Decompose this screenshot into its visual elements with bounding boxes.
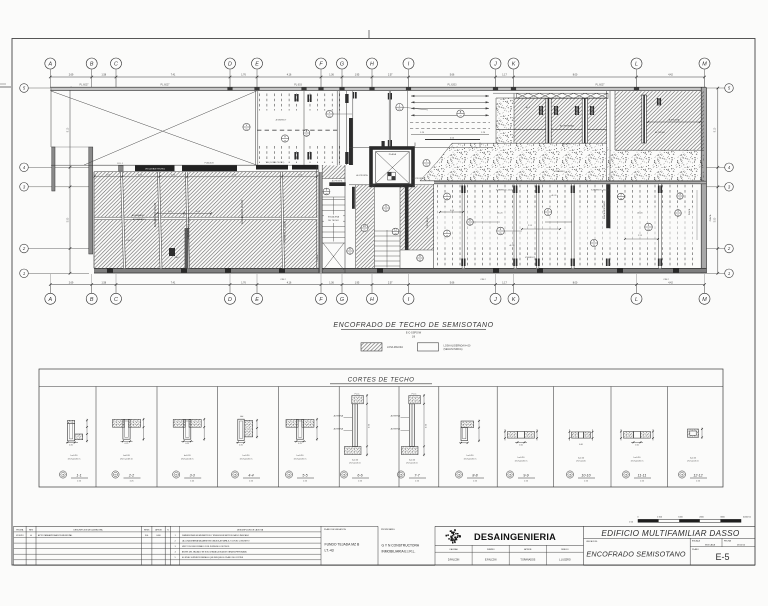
svg-text:G Y N CONSTRUCTORA: G Y N CONSTRUCTORA	[382, 544, 420, 548]
svg-text:h=0.20: h=0.20	[297, 455, 305, 457]
svg-text:COL.1: COL.1	[117, 163, 124, 165]
svg-text:V-SEMISOT (.25x.60): V-SEMISOT (.25x.60)	[496, 190, 515, 192]
svg-text:h=0.20: h=0.20	[123, 455, 131, 457]
svg-text:AL.TECHO: AL.TECHO	[655, 131, 665, 134]
svg-text:LOSA ALIGERADA H=20: LOSA ALIGERADA H=20	[444, 344, 471, 347]
svg-text:L.LUCERO: L.LUCERO	[559, 560, 571, 562]
svg-text:1: 1	[728, 271, 730, 276]
svg-text:5-5: 5-5	[302, 473, 307, 477]
svg-text:VIG (DOBLE TECHO): VIG (DOBLE TECHO)	[145, 169, 165, 171]
svg-text:J: J	[493, 62, 497, 68]
svg-text:FECHA: FECHA	[724, 539, 731, 542]
svg-text:G: G	[340, 297, 344, 303]
svg-text:EL NIVEL SUPERIOR SERA EL QUE: EL NIVEL SUPERIOR SERA EL QUE INDIQUE EL…	[182, 556, 244, 559]
svg-text:E: E	[255, 297, 259, 303]
svg-text:h=0.25: h=0.25	[690, 457, 697, 459]
svg-text:11-11: 11-11	[638, 473, 647, 477]
svg-text:PLANO: PLANO	[692, 548, 699, 551]
svg-text:CALIDAD: CALIDAD	[449, 548, 458, 551]
svg-text:PL.6203: PL.6203	[448, 84, 458, 87]
svg-text:3-3: 3-3	[190, 473, 195, 477]
svg-text:DESCRIPCION DE LA NOTA: DESCRIPCION DE LA NOTA	[237, 528, 264, 531]
svg-text:APTO PARA APROBACION MUNICIPAL: APTO PARA APROBACION MUNICIPAL	[38, 534, 72, 537]
svg-text:h=0.20: h=0.20	[71, 455, 79, 457]
svg-text:4-4: 4-4	[248, 473, 253, 477]
svg-text:A.PRONTA: A.PRONTA	[669, 119, 680, 122]
svg-text:0.25: 0.25	[185, 443, 189, 445]
svg-text:06/10/14: 06/10/14	[737, 545, 746, 547]
svg-text:5.90: 5.90	[715, 217, 717, 222]
svg-text:PL./C: PL./C	[355, 393, 360, 395]
svg-text:A SEMISOT: A SEMISOT	[276, 119, 288, 122]
svg-text:PL.6027: PL.6027	[80, 84, 90, 87]
svg-text:AL.PRONTA: AL.PRONTA	[356, 174, 368, 177]
svg-text:RELLENO: RELLENO	[555, 171, 565, 173]
svg-text:(T) h=0.05 m: (T) h=0.05 m	[68, 458, 81, 460]
svg-text:FECHA: FECHA	[16, 528, 23, 531]
svg-text:T.GRANADOS: T.GRANADOS	[520, 559, 535, 562]
svg-text:1:100: 1:100	[657, 516, 663, 518]
svg-text:AL.20: AL.20	[497, 212, 503, 215]
svg-text:E: E	[255, 62, 259, 68]
svg-text:5.66: 5.66	[450, 75, 455, 77]
svg-text:PLANO DE UBICACION: PLANO DE UBICACION	[324, 528, 346, 531]
svg-text:V: V	[329, 110, 331, 114]
svg-text:V-SEMISOT (.25x.60): V-SEMISOT (.25x.60)	[591, 190, 610, 192]
svg-text:PL.6027: PL.6027	[161, 84, 171, 87]
svg-text:DESCANSO: DESCANSO	[426, 216, 429, 228]
svg-text:DESCRIPCION DE LA MEJORA: DESCRIPCION DE LA MEJORA	[73, 528, 103, 531]
svg-text:PLACA/DESCANSO: PLACA/DESCANSO	[603, 200, 606, 219]
svg-text:0.25: 0.25	[69, 444, 73, 446]
svg-text:ALIGERADO: ALIGERADO	[133, 218, 146, 221]
svg-text:V: V	[246, 123, 248, 127]
svg-text:5: 5	[175, 557, 176, 559]
svg-text:1.36: 1.36	[329, 282, 334, 284]
svg-text:D: D	[228, 62, 232, 68]
svg-text:E.FALCON: E.FALCON	[485, 559, 497, 562]
svg-text:C: C	[114, 62, 118, 68]
svg-text:LT.-43: LT.-43	[325, 549, 334, 553]
svg-text:C: C	[114, 297, 118, 303]
svg-text:Asf.: Asf.	[240, 415, 244, 418]
svg-text:2.69: 2.69	[69, 75, 74, 77]
svg-text:E-C-SSPG/W: E-C-SSPG/W	[406, 332, 422, 335]
svg-text:ALTERNA: ALTERNA	[334, 428, 344, 431]
svg-text:A: A	[284, 135, 286, 139]
svg-text:10-10: 10-10	[581, 473, 590, 477]
svg-text:1.00: 1.00	[635, 444, 639, 446]
svg-text:h=0.20: h=0.20	[467, 455, 475, 457]
svg-text:1.95: 1.95	[355, 75, 360, 77]
svg-text:DESAINGENIERIA: DESAINGENIERIA	[474, 532, 556, 542]
svg-text:0.25: 0.25	[239, 444, 243, 446]
svg-text:1.76: 1.76	[241, 282, 246, 284]
svg-text:PLACA: PLACA	[709, 214, 712, 221]
svg-text:6-6: 6-6	[357, 473, 362, 477]
svg-text:(T) h=0.05: (T) h=0.05	[576, 461, 586, 463]
svg-text:ALT.PRONTAS: ALT.PRONTAS	[560, 125, 575, 128]
svg-text:0.25: 0.25	[298, 443, 302, 445]
svg-text:5.90: 5.90	[68, 217, 70, 222]
svg-text:K: K	[512, 62, 516, 68]
svg-text:L: L	[635, 297, 638, 303]
svg-text:REV: REV	[29, 529, 34, 531]
svg-text:(T) h=0.05 m: (T) h=0.05 m	[687, 461, 699, 463]
svg-text:12-12: 12-12	[693, 473, 702, 477]
svg-text:APROB: APROB	[524, 548, 532, 551]
svg-text:FUNDO TEJADA MZ B: FUNDO TEJADA MZ B	[325, 543, 361, 547]
svg-text:H: H	[370, 62, 374, 68]
svg-text:(T) h=0.05 m: (T) h=0.05 m	[294, 458, 307, 460]
svg-text:VER TODO ENCOFRADO CON JUNTA D: VER TODO ENCOFRADO CON JUNTA DE LOS PISO…	[182, 545, 230, 548]
svg-text:9-9: 9-9	[523, 473, 528, 477]
svg-text:J: J	[493, 297, 497, 303]
svg-text:VIGA CHATA V-CH: VIGA CHATA V-CH	[187, 217, 191, 239]
svg-text:2-2: 2-2	[128, 473, 134, 477]
svg-text:INMOBILIARIA E.I.R.L.: INMOBILIARIA E.I.R.L.	[382, 550, 416, 554]
svg-text:1.95: 1.95	[355, 282, 360, 284]
svg-text:1.00: 1.00	[519, 444, 523, 446]
svg-text:h=0.20: h=0.20	[634, 457, 642, 459]
svg-text:M: M	[702, 297, 707, 303]
svg-text:1.17: 1.17	[502, 75, 507, 77]
svg-text:(T) h=0.05 m: (T) h=0.05 m	[181, 458, 194, 460]
svg-text:DE TECHO: DE TECHO	[328, 220, 339, 222]
svg-text:PLACA: PLACA	[316, 254, 319, 261]
svg-text:D.FALCON: D.FALCON	[448, 559, 460, 562]
svg-text:(SEGUN INDICA): (SEGUN INDICA)	[444, 348, 463, 351]
svg-text:2.37: 2.37	[388, 282, 393, 284]
svg-text:h=0.20: h=0.20	[409, 460, 416, 462]
svg-text:AL.P: AL.P	[526, 106, 531, 109]
svg-text:B: B	[90, 297, 94, 303]
svg-text:CA.2: CA.2	[175, 256, 181, 259]
svg-text:PLACA: PLACA	[389, 153, 397, 156]
svg-text:8.00: 8.00	[573, 282, 578, 284]
svg-text:1.76: 1.76	[241, 75, 246, 77]
svg-text:PLACA B: PLACA B	[204, 162, 214, 165]
svg-text:M: M	[702, 62, 707, 68]
svg-text:LA LOSA DEBERA VACIARSE EN UNA: LA LOSA DEBERA VACIARSE EN UNA SOLA ETAP…	[182, 539, 250, 542]
svg-text:1.58: 1.58	[102, 75, 107, 77]
svg-text:PL.603: PL.603	[294, 84, 302, 87]
svg-text:ENCOFRADO SEMISOTANO: ENCOFRADO SEMISOTANO	[586, 550, 686, 559]
svg-text:h=0.20: h=0.20	[184, 455, 192, 457]
svg-text:DGL: DGL	[145, 535, 149, 537]
svg-text:2.37: 2.37	[388, 75, 393, 77]
svg-text:G: G	[340, 62, 344, 68]
svg-text:1: 1	[175, 535, 176, 537]
svg-text:AL.20: AL.20	[637, 212, 643, 215]
svg-text:2: 2	[175, 540, 176, 542]
svg-text:7.41: 7.41	[171, 282, 176, 284]
svg-text:h=0.20: h=0.20	[352, 460, 359, 462]
svg-text:1.58: 1.58	[102, 282, 107, 284]
svg-text:8.10: 8.10	[715, 127, 717, 132]
svg-text:APROB: APROB	[155, 528, 162, 531]
svg-text:ALTERNA: ALTERNA	[391, 428, 401, 431]
svg-text:H: H	[370, 297, 374, 303]
svg-text:8-8: 8-8	[472, 473, 477, 477]
svg-text:ALIGERADO H=0.20: ALIGERADO H=0.20	[240, 199, 244, 224]
svg-text:h=0.20: h=0.20	[243, 455, 251, 457]
svg-text:ALTERNA: ALTERNA	[391, 415, 401, 418]
svg-text:PL.6027: PL.6027	[596, 84, 606, 87]
svg-text:ALIGERADO: ALIGERADO	[132, 214, 145, 217]
svg-text:A: A	[48, 297, 53, 303]
svg-text:ENCOFRADO DE TECHO DE SEMI: ENCOFRADO DE TECHO DE SEMISOTANO	[333, 322, 493, 329]
svg-text:ALTERNA: ALTERNA	[334, 415, 344, 418]
svg-text:V-SEMISOT 25x50: V-SEMISOT 25x50	[283, 221, 287, 243]
svg-text:L: L	[635, 62, 638, 68]
svg-text:CIM.2: CIM.2	[280, 279, 286, 281]
svg-text:0.25: 0.25	[125, 443, 129, 445]
svg-text:INDICADA: INDICADA	[705, 544, 716, 547]
svg-text:(T) h=0.05 m: (T) h=0.05 m	[349, 463, 361, 465]
svg-text:4.42: 4.42	[668, 75, 673, 77]
svg-text:K: K	[512, 297, 516, 303]
svg-text:UBICACION:: UBICACION:	[586, 540, 598, 543]
svg-text:4.42: 4.42	[668, 282, 673, 284]
svg-text:1: 1	[23, 271, 25, 276]
svg-text:PROPIETARIO:: PROPIETARIO:	[381, 528, 396, 531]
svg-text:8.10: 8.10	[68, 127, 70, 132]
svg-text:1.36: 1.36	[329, 75, 334, 77]
svg-text:ANTES DEL VACIADO SE SOLICITAR: ANTES DEL VACIADO SE SOLICITARA LA GUIA …	[182, 551, 247, 554]
svg-text:(T) h=0.05 m: (T) h=0.05 m	[464, 458, 477, 460]
svg-text:EDIFICIO MULTIFAMILIAR DASSO: EDIFICIO MULTIFAMILIAR DASSO	[601, 529, 740, 538]
svg-text:CIM.2: CIM.2	[663, 279, 669, 281]
svg-text:E-5: E-5	[715, 552, 729, 562]
svg-text:4.16: 4.16	[287, 75, 292, 77]
svg-text:(T) h=0.05 m: (T) h=0.05 m	[631, 460, 644, 462]
svg-text:0.60: 0.60	[579, 444, 583, 446]
svg-text:AL.PRONTA: AL.PRONTA	[412, 177, 424, 180]
svg-text:2.69: 2.69	[69, 282, 74, 284]
svg-text:8.00: 8.00	[573, 75, 578, 77]
svg-text:07/10/13: 07/10/13	[16, 535, 23, 537]
svg-text:4000mm: 4000mm	[743, 516, 751, 518]
svg-text:h=0.20: h=0.20	[578, 457, 585, 459]
svg-text:h=0.20: h=0.20	[518, 457, 526, 459]
svg-text:REVIS: REVIS	[144, 529, 150, 531]
svg-text:5.66: 5.66	[450, 282, 455, 284]
svg-text:AL.20: AL.20	[552, 194, 557, 197]
svg-text:LOSA MACIZA: LOSA MACIZA	[387, 346, 403, 349]
svg-text:CIM.2: CIM.2	[480, 279, 486, 281]
svg-text:CORTES DE TECHO: CORTES DE TECHO	[348, 377, 415, 384]
svg-text:A: A	[48, 62, 53, 68]
svg-text:V.SEMISOT: V.SEMISOT	[525, 257, 536, 259]
svg-text:B: B	[90, 62, 94, 68]
svg-text:1.17: 1.17	[502, 282, 507, 284]
svg-text:(T) h=0.05 m: (T) h=0.05 m	[120, 458, 133, 460]
svg-text:ESCALA: ESCALA	[692, 539, 701, 542]
svg-text:(T) h=0.05 m: (T) h=0.05 m	[240, 458, 253, 460]
svg-text:D: D	[228, 297, 232, 303]
svg-text:DIBUJO: DIBUJO	[561, 549, 569, 551]
svg-text:PLACA: PLACA	[688, 208, 691, 215]
svg-text:(T) h=0.05 m: (T) h=0.05 m	[406, 463, 418, 465]
svg-text:(T) h=0.05 m: (T) h=0.05 m	[515, 460, 528, 462]
svg-text:ESCALERA: ESCALERA	[328, 216, 340, 219]
svg-text:1-1: 1-1	[76, 473, 81, 477]
svg-text:PL./C: PL./C	[412, 393, 417, 395]
svg-text:AL.20: AL.20	[510, 244, 515, 247]
svg-text:7.41: 7.41	[171, 75, 176, 77]
svg-text:DISEÑO: DISEÑO	[487, 548, 495, 551]
svg-text:3: 3	[175, 546, 176, 548]
svg-text:DIR 1/2: DIR 1/2	[127, 240, 135, 242]
svg-text:4: 4	[175, 552, 176, 554]
svg-text:DIMENSIONES EN MILIMETROS Y NI: DIMENSIONES EN MILIMETROS Y NIVELES EN M…	[182, 534, 250, 537]
svg-text:4.16: 4.16	[287, 282, 292, 284]
svg-text:ALIGERADO H=0.20: ALIGERADO H=0.20	[153, 202, 157, 227]
svg-text:AL.PRONTA: AL.PRONTA	[332, 179, 343, 182]
